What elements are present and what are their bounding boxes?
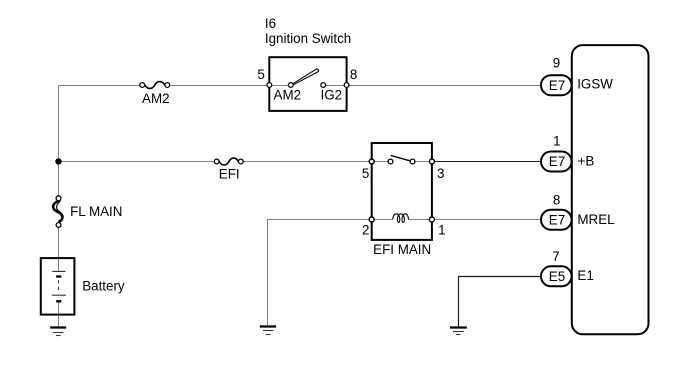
svg-text:8: 8: [350, 67, 357, 82]
wire E1 to ground drop: [459, 277, 542, 327]
svg-text:IG2: IG2: [321, 88, 343, 103]
wire AM2 fuse to ignition switch pin 5: [170, 85, 269, 87]
wire node to EFI fuse: [58, 161, 214, 163]
svg-text:8: 8: [553, 192, 560, 207]
relay EFI MAIN: [362, 143, 446, 257]
svg-text:Ignition Switch: Ignition Switch: [265, 31, 351, 46]
svg-text:FL MAIN: FL MAIN: [70, 204, 122, 219]
svg-text:7: 7: [552, 249, 559, 264]
svg-text:1: 1: [553, 133, 560, 148]
wire relay pin 3 to +B: [432, 161, 542, 163]
svg-text:E5: E5: [549, 269, 565, 284]
svg-text:5: 5: [257, 67, 264, 82]
wire battery bus vertical: [58, 86, 60, 196]
svg-text:E7: E7: [549, 212, 565, 227]
svg-text:AM2: AM2: [274, 88, 302, 103]
svg-text:EFI: EFI: [219, 167, 240, 182]
ground battery: [50, 328, 66, 336]
svg-text:1: 1: [438, 223, 445, 238]
ECM connector: [572, 45, 649, 334]
battery: [41, 258, 125, 315]
svg-text:AM2: AM2: [142, 91, 170, 106]
wire ignition switch pin 8 to IGSW: [347, 85, 542, 87]
svg-text:5: 5: [362, 166, 369, 181]
svg-text:Battery: Battery: [82, 278, 125, 293]
wire relay pin 2 to ground drop: [268, 220, 372, 326]
wire row1 bus to AM2 fuse: [58, 85, 140, 87]
ground relay coil: [260, 327, 276, 335]
svg-text:E7: E7: [549, 78, 565, 93]
wire EFI fuse to relay pin 5: [243, 161, 371, 163]
wire battery to ground: [58, 301, 60, 327]
fuse EFI: [214, 158, 243, 182]
svg-text:E7: E7: [549, 154, 565, 169]
pin E7 IGSW: [541, 56, 572, 96]
svg-text:IGSW: IGSW: [577, 77, 613, 92]
pin E5 E1: [541, 249, 572, 286]
svg-text:I6: I6: [265, 16, 276, 31]
ignition switch I6: [257, 16, 357, 111]
fusible link FL MAIN: [53, 196, 122, 228]
svg-text:9: 9: [553, 56, 560, 71]
svg-text:MREL: MREL: [577, 212, 614, 227]
node junction dot: [55, 158, 61, 164]
svg-text:2: 2: [362, 223, 369, 238]
svg-text:E1: E1: [577, 268, 593, 283]
fuse AM2: [140, 82, 170, 107]
svg-text:+B: +B: [578, 154, 595, 169]
svg-text:3: 3: [437, 166, 444, 181]
pin E7 MREL: [541, 192, 572, 229]
pin E7 +B: [541, 133, 572, 171]
relay coil: [393, 214, 409, 223]
ground E1: [450, 328, 467, 335]
wire FL MAIN to battery: [58, 227, 60, 270]
wire relay pin 1 to MREL: [432, 219, 542, 221]
svg-text:EFI MAIN: EFI MAIN: [373, 242, 431, 257]
